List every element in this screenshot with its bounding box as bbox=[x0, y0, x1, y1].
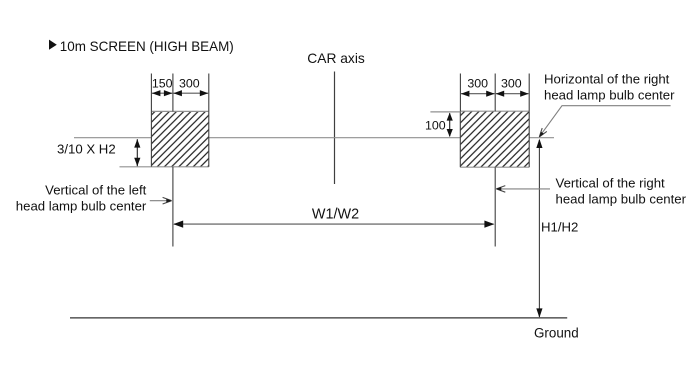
title marker bbox=[49, 40, 57, 50]
svg-text:W1/W2: W1/W2 bbox=[312, 207, 359, 223]
left dimension extension line c bbox=[208, 74, 210, 112]
svg-text:Vertical of the right: Vertical of the right bbox=[556, 175, 666, 190]
right aim zone (hatched) bbox=[460, 111, 529, 167]
150 dimension arrow bbox=[152, 90, 173, 96]
left zone bottom extension bbox=[120, 166, 152, 168]
left dimension extension line b bbox=[172, 74, 174, 112]
300 dimension arrow (left) bbox=[173, 90, 208, 96]
left bulb center vertical bbox=[172, 167, 174, 247]
svg-text:H1/H2: H1/H2 bbox=[541, 220, 578, 235]
svg-text:head lamp bulb center: head lamp bulb center bbox=[16, 198, 147, 213]
100 dimension arrow bbox=[447, 113, 453, 137]
svg-text:Ground: Ground bbox=[534, 325, 579, 340]
right bulb center vertical bbox=[494, 167, 496, 246]
3/10 dimension arrow bbox=[134, 139, 140, 166]
ground line bbox=[70, 317, 567, 319]
left aim zone (hatched) bbox=[151, 111, 208, 166]
300 dimension arrow (right a) bbox=[461, 91, 495, 97]
100 top extension line bbox=[430, 111, 460, 113]
vertical-left leader arrow bbox=[150, 197, 172, 204]
left dimension extension line a bbox=[150, 74, 152, 112]
H1/H2 dimension line bbox=[536, 139, 542, 318]
CAR axis line bbox=[334, 72, 336, 185]
right dimension extension line a bbox=[459, 74, 461, 112]
svg-text:300: 300 bbox=[501, 76, 522, 90]
svg-text:10m SCREEN (HIGH BEAM): 10m SCREEN (HIGH BEAM) bbox=[60, 39, 234, 54]
svg-text:Horizontal of the right: Horizontal of the right bbox=[544, 72, 670, 87]
svg-text:CAR axis: CAR axis bbox=[307, 51, 365, 66]
svg-text:300: 300 bbox=[179, 76, 200, 90]
svg-text:Vertical of the left: Vertical of the left bbox=[45, 182, 146, 197]
svg-text:3/10 X H2: 3/10 X H2 bbox=[57, 142, 116, 157]
svg-text:300: 300 bbox=[467, 76, 488, 90]
svg-text:100: 100 bbox=[425, 119, 446, 133]
right dimension extension line b bbox=[494, 74, 496, 112]
W1/W2 dimension bbox=[173, 221, 494, 228]
svg-text:head lamp bulb center: head lamp bulb center bbox=[556, 192, 687, 207]
vertical-right leader arrow bbox=[496, 186, 550, 193]
svg-text:150: 150 bbox=[152, 76, 173, 90]
300 dimension arrow (right b) bbox=[496, 91, 529, 97]
headlamp bulb center horizontal line bbox=[74, 137, 554, 139]
horizontal-right leader bbox=[539, 106, 670, 137]
right dimension extension line c bbox=[528, 74, 530, 112]
svg-text:head lamp bulb center: head lamp bulb center bbox=[544, 88, 675, 103]
